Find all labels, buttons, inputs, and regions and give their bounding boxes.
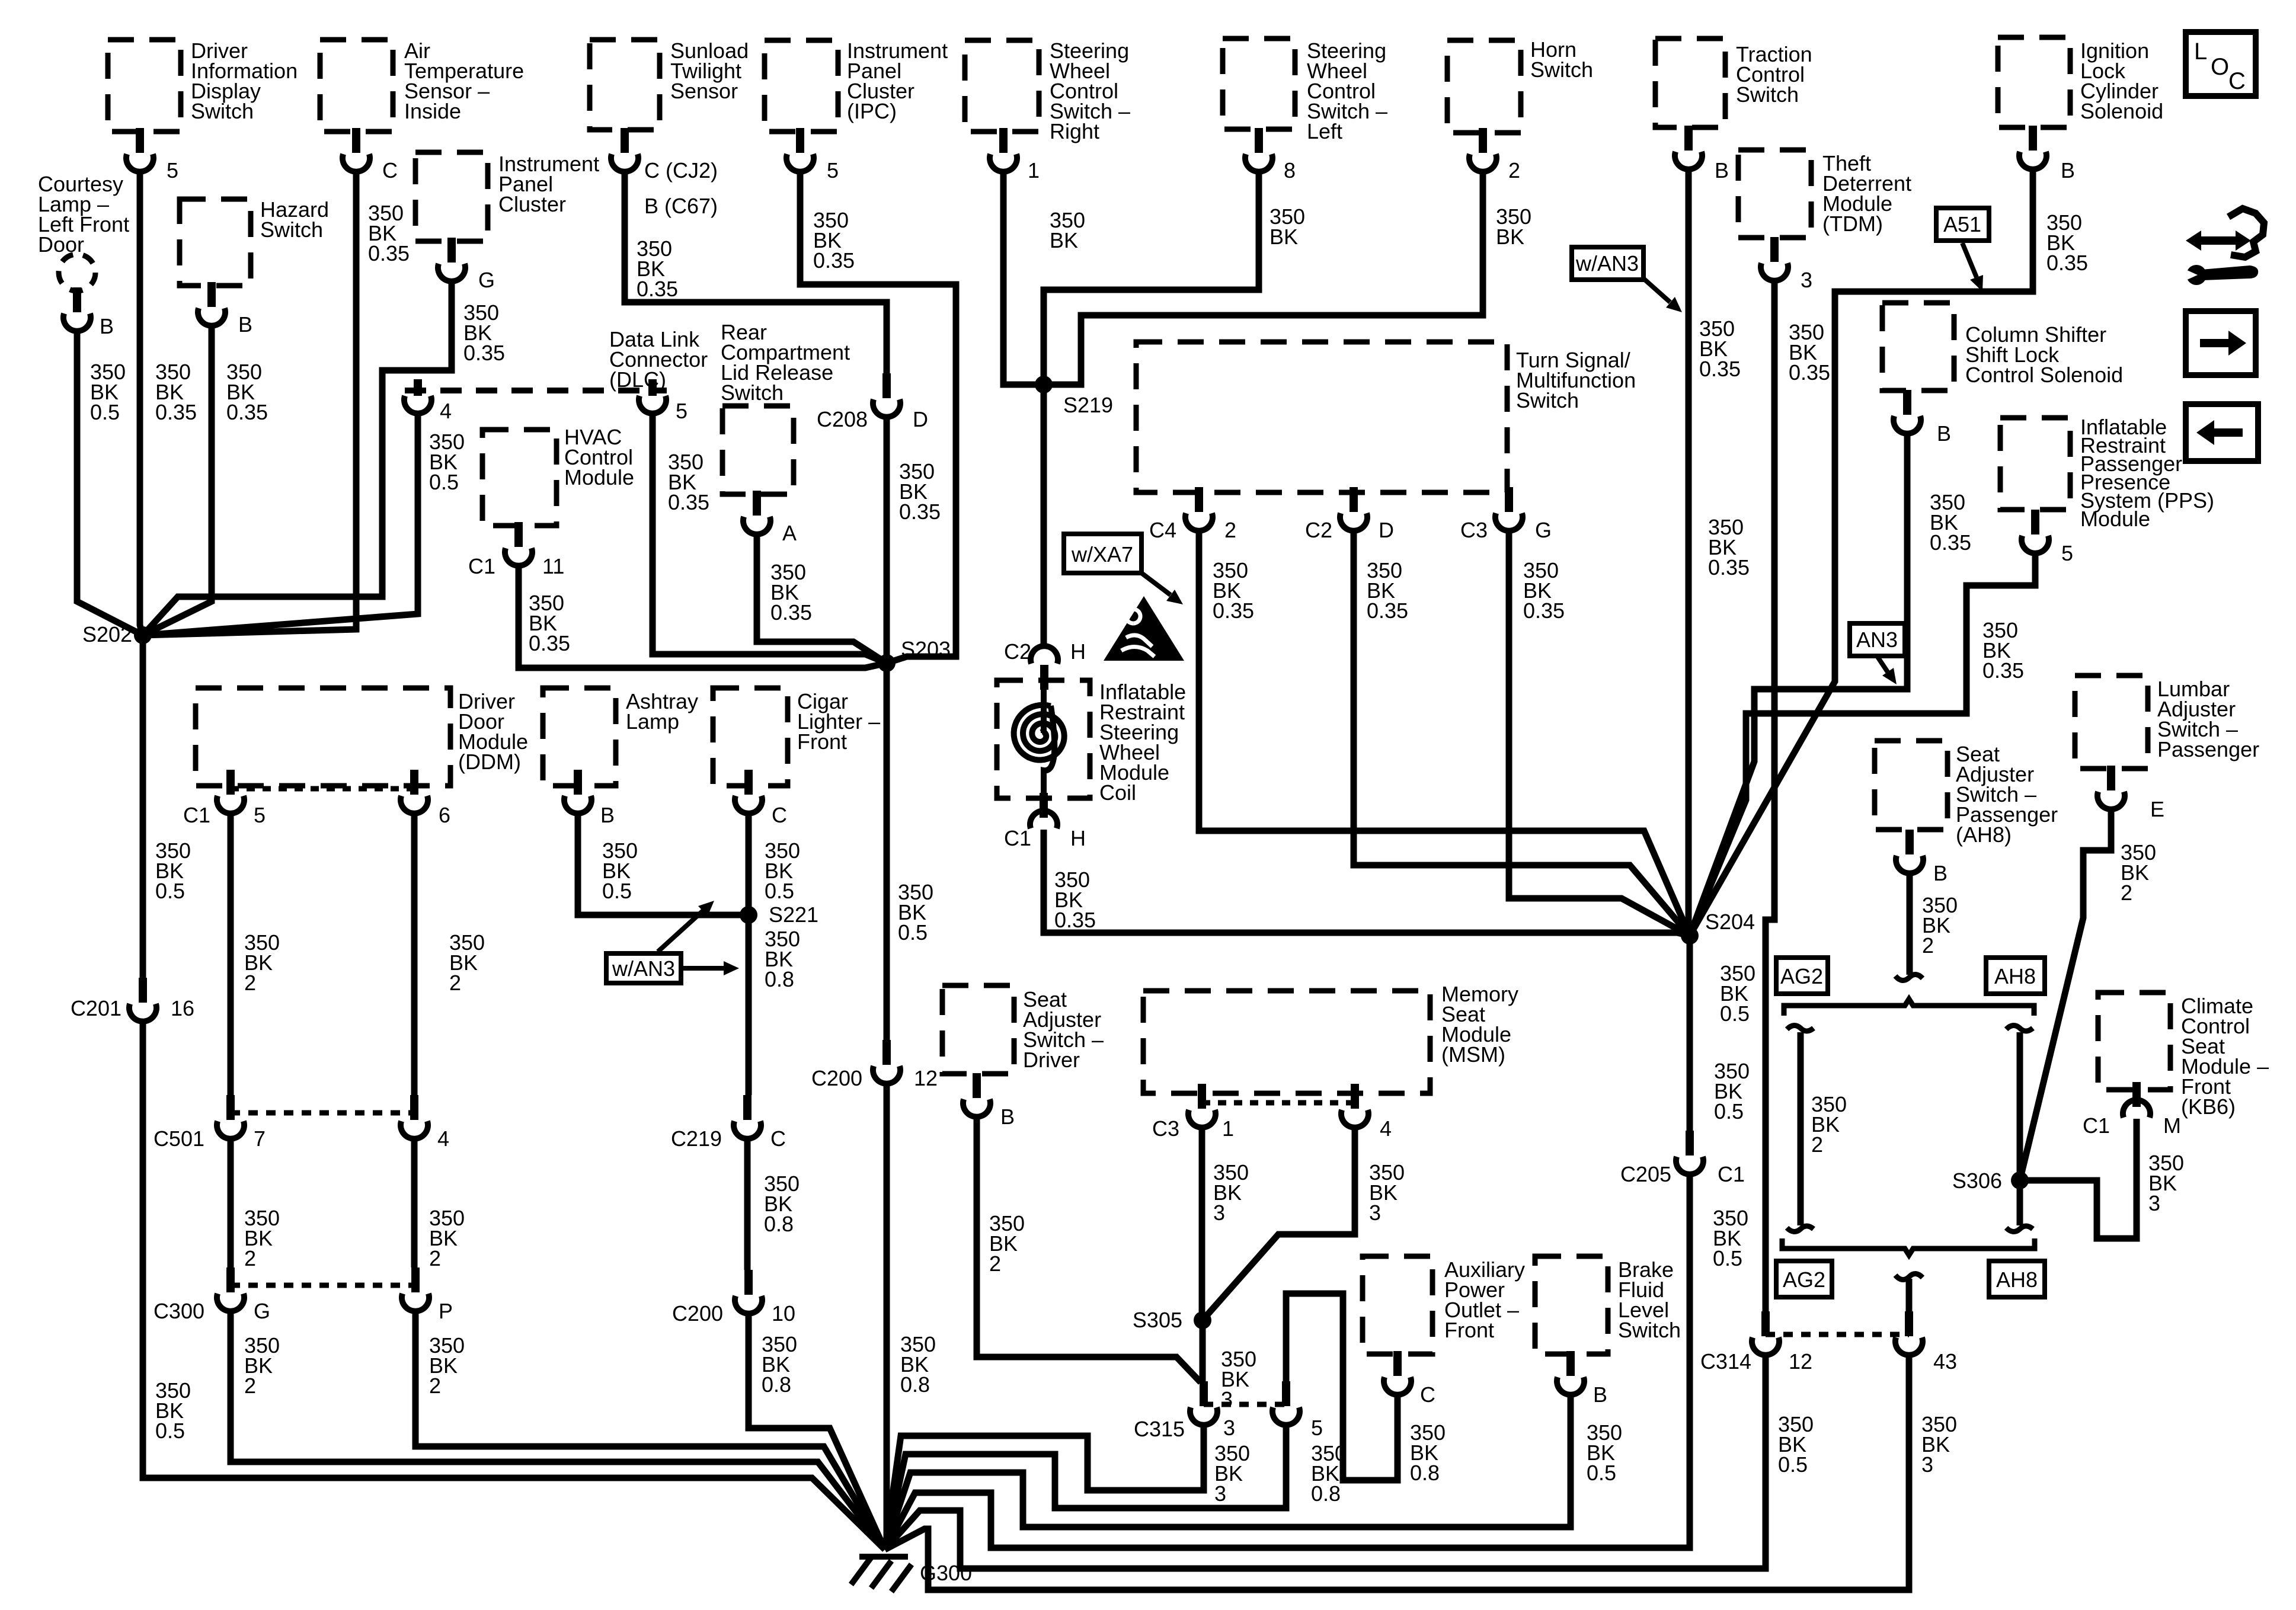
arrow w/AN3 up-right xyxy=(658,911,703,952)
wire C208 to S203 xyxy=(884,418,890,663)
svg-text:AN3: AN3 xyxy=(1856,628,1898,652)
wire C1/H to S204 xyxy=(1044,830,1690,936)
component HVAC Control Module xyxy=(482,430,557,526)
svg-text:0.35: 0.35 xyxy=(155,400,197,424)
right arrow glyph xyxy=(2200,339,2228,347)
svg-text:(KB6): (KB6) xyxy=(2181,1094,2236,1119)
svg-text:0.35: 0.35 xyxy=(529,631,570,655)
connector C219 pin C xyxy=(734,1095,761,1139)
svg-text:Module: Module xyxy=(2080,507,2150,531)
svg-text:0.8: 0.8 xyxy=(765,967,794,991)
connector C314 pin 12 xyxy=(1752,1311,1779,1355)
svg-text:0.35: 0.35 xyxy=(637,277,678,301)
svg-text:2: 2 xyxy=(1811,1132,1823,1157)
connector Cigar Lighter pin C xyxy=(735,770,762,814)
svg-text:2: 2 xyxy=(244,971,256,995)
connector DDM C1 pin 5 xyxy=(217,770,244,814)
svg-text:5: 5 xyxy=(676,399,687,423)
connector MSM C3 pin 1 xyxy=(1188,1084,1216,1128)
svg-text:L: L xyxy=(2194,39,2207,65)
svg-text:AH8: AH8 xyxy=(1994,964,2036,988)
connector Brake Fluid Switch pin B xyxy=(1557,1351,1584,1395)
svg-text:S202: S202 xyxy=(82,622,132,646)
svg-text:B: B xyxy=(1937,421,1951,446)
svg-text:43: 43 xyxy=(1933,1349,1957,1374)
component Cigar Lighter - Front xyxy=(713,688,788,786)
svg-text:C200: C200 xyxy=(672,1301,723,1326)
svg-text:G: G xyxy=(1535,518,1552,542)
connector C300 pin P xyxy=(402,1267,429,1311)
connector C1 pin H xyxy=(1030,793,1057,828)
svg-text:3: 3 xyxy=(1801,268,1812,292)
connector SWC Left pin 8 xyxy=(1245,128,1272,172)
connector C300 pin G xyxy=(217,1267,244,1311)
component Courtesy Lamp - Left Front Door xyxy=(59,254,95,291)
connector C200 pin 10 xyxy=(735,1270,762,1314)
wire MFS2 to S204 xyxy=(1199,532,1690,936)
svg-text:Module: Module xyxy=(564,465,634,489)
svg-text:0.35: 0.35 xyxy=(1982,658,2024,683)
svg-text:5: 5 xyxy=(167,158,178,183)
connector DLC pin 4 xyxy=(404,379,431,414)
svg-text:C1: C1 xyxy=(468,554,495,578)
svg-text:12: 12 xyxy=(1789,1349,1812,1374)
svg-text:Lamp: Lamp xyxy=(626,709,679,734)
wire PPS5 to S204 xyxy=(1690,554,2035,936)
hook AH8 wire bottom xyxy=(2006,1226,2033,1232)
svg-text:D: D xyxy=(913,407,928,431)
svg-text:Right: Right xyxy=(1050,119,1099,143)
svg-text:Switch: Switch xyxy=(191,99,254,123)
label box w/AN3 (lower) xyxy=(606,953,681,983)
svg-text:S203: S203 xyxy=(901,637,951,661)
svg-text:Switch: Switch xyxy=(721,380,784,405)
label box AN3 xyxy=(1850,623,1905,656)
connector IPC pin 5 xyxy=(786,128,814,172)
svg-text:C205: C205 xyxy=(1620,1162,1671,1186)
wire Cigar C through S221 to C219 xyxy=(746,814,752,1095)
connector Seat Adj Driver pin B xyxy=(963,1073,990,1117)
component Column Shifter Shift Lock Control Solenoid xyxy=(1882,303,1954,391)
svg-text:A51: A51 xyxy=(1943,212,1981,236)
svg-text:B: B xyxy=(238,312,252,337)
wire C219 to C200-10 xyxy=(744,1140,751,1270)
svg-text:Switch: Switch xyxy=(1618,1318,1681,1342)
wire MFSG to S204 xyxy=(1509,532,1690,936)
svg-text:O: O xyxy=(2211,54,2229,80)
hook at seat adj passenger wire end xyxy=(1895,974,1923,980)
svg-text:0.35: 0.35 xyxy=(1699,357,1741,381)
wire RCLRS A to S203 xyxy=(757,535,887,663)
svg-text:0.35: 0.35 xyxy=(770,600,812,625)
wire C314-12 to G300 xyxy=(885,1356,1766,1569)
svg-text:Door: Door xyxy=(38,232,84,257)
wire BrakeFluid B to G300 xyxy=(885,1395,1571,1550)
component Ashtray Lamp xyxy=(543,688,616,786)
hook AG2 wire top xyxy=(1787,1025,1814,1031)
svg-text:0.35: 0.35 xyxy=(2046,251,2088,275)
wire IPC G to S202 xyxy=(143,282,452,635)
svg-text:3: 3 xyxy=(1221,1387,1233,1411)
component Climate Control Seat Module - Front (KB6) xyxy=(2098,993,2170,1090)
svg-text:C: C xyxy=(382,158,398,183)
svg-text:11: 11 xyxy=(542,554,564,578)
svg-text:0.5: 0.5 xyxy=(155,1419,185,1443)
svg-text:0.35: 0.35 xyxy=(226,400,268,424)
svg-text:0.35: 0.35 xyxy=(463,341,505,365)
label box AH8 upper xyxy=(1986,958,2045,994)
svg-text:5: 5 xyxy=(254,803,266,827)
svg-text:w/XA7: w/XA7 xyxy=(1071,542,1133,566)
svg-text:12: 12 xyxy=(914,1066,938,1090)
arrow w/XA7 xyxy=(1141,573,1171,595)
dotted link C501 pins xyxy=(231,1110,414,1116)
svg-text:3: 3 xyxy=(1214,1481,1226,1506)
left arrow glyph xyxy=(2214,428,2243,437)
connector DDM pin 6 xyxy=(401,770,428,814)
svg-text:0.5: 0.5 xyxy=(898,920,928,945)
connector RCLRS pin A xyxy=(743,491,770,534)
svg-text:B (C67): B (C67) xyxy=(644,194,718,218)
connector PPS pin 5 xyxy=(2022,510,2049,553)
connector HVAC C1 pin 11 xyxy=(505,522,532,566)
arrow AN3 xyxy=(1877,656,1888,672)
wire Horn 2 to S219 xyxy=(1044,172,1483,385)
component Turn Signal Multifunction Switch xyxy=(1136,342,1507,492)
svg-text:B: B xyxy=(1933,861,1948,885)
connector IPC pin G xyxy=(438,238,465,281)
wire AirTemp C to S202 xyxy=(143,172,356,635)
wire S305 to C315-3 xyxy=(1200,1320,1206,1381)
connector C208 pin D xyxy=(873,373,900,417)
svg-text:C2: C2 xyxy=(1305,518,1332,542)
connector Driver Information Display Switch pin 5 xyxy=(126,128,154,172)
svg-text:0.35: 0.35 xyxy=(899,500,941,524)
wire MSM4 to S305 xyxy=(1203,1128,1355,1320)
svg-text:0.8: 0.8 xyxy=(762,1372,791,1397)
svg-text:0.8: 0.8 xyxy=(1311,1481,1341,1506)
svg-text:7: 7 xyxy=(254,1126,266,1151)
svg-text:5: 5 xyxy=(1311,1416,1323,1440)
label box AG2 lower xyxy=(1776,1261,1832,1297)
wire brace to C314-43 xyxy=(1906,1279,1913,1311)
svg-text:Switch: Switch xyxy=(1736,82,1799,107)
svg-text:2: 2 xyxy=(449,971,461,995)
svg-text:4: 4 xyxy=(440,399,452,423)
svg-text:C314: C314 xyxy=(1700,1349,1751,1374)
svg-text:BK: BK xyxy=(1496,225,1524,249)
svg-text:1: 1 xyxy=(1222,1116,1234,1141)
svg-text:10: 10 xyxy=(772,1301,795,1326)
svg-text:3: 3 xyxy=(1223,1416,1235,1440)
svg-text:BK: BK xyxy=(1050,228,1078,252)
svg-text:Front: Front xyxy=(797,729,847,754)
wire AG2 option xyxy=(1798,1032,1804,1225)
svg-text:C315: C315 xyxy=(1134,1417,1185,1441)
dotted link MSM pins xyxy=(1202,1100,1355,1106)
svg-text:0.35: 0.35 xyxy=(1708,555,1750,580)
wire C200-12 to G300 xyxy=(885,1084,887,1550)
svg-text:0.5: 0.5 xyxy=(602,879,632,903)
connector Air Temp Sensor pin C xyxy=(343,128,370,172)
wire AH8 option xyxy=(2017,1032,2023,1225)
splice S219 xyxy=(1035,376,1053,393)
arrow w/AN3 top xyxy=(1643,279,1670,302)
svg-text:4: 4 xyxy=(437,1126,449,1151)
svg-text:G: G xyxy=(478,268,495,292)
wire DLC4 to S202 xyxy=(143,414,418,635)
component Steering Wheel Control Switch - Right xyxy=(965,40,1039,132)
component Instrument Panel Cluster (IPC) xyxy=(765,40,838,132)
component Seat Adjuster Switch - Driver xyxy=(942,985,1014,1074)
splice S305 xyxy=(1194,1311,1211,1329)
label box AH8 lower xyxy=(1989,1261,2045,1297)
connector C314 pin 43 xyxy=(1895,1311,1923,1355)
svg-text:6: 6 xyxy=(439,803,450,827)
connector Hazard Switch pin B xyxy=(198,282,225,326)
brace upper (AG2/AH8 option split) xyxy=(1784,999,2034,1016)
brace lower (AG2/AH8 option merge) xyxy=(1782,1238,2035,1255)
connector C315 pin 5 xyxy=(1272,1381,1300,1425)
svg-text:Switch: Switch xyxy=(1530,57,1593,82)
svg-text:0.5: 0.5 xyxy=(1778,1452,1808,1477)
svg-text:0.5: 0.5 xyxy=(90,400,120,424)
connector Lumbar pin E xyxy=(2097,766,2125,809)
connector DLC pin 5 xyxy=(639,379,666,414)
icon box left arrow xyxy=(2186,404,2258,461)
svg-text:S204: S204 xyxy=(1705,910,1755,934)
svg-text:0.8: 0.8 xyxy=(1410,1461,1440,1485)
component Hazard Switch xyxy=(180,199,251,286)
wire HVAC 11 to S203 xyxy=(519,566,887,668)
label box A51 xyxy=(1936,208,1989,241)
component Brake Fluid Level Switch xyxy=(1535,1256,1608,1354)
wire DLC5 to S203 xyxy=(653,414,887,663)
svg-text:2: 2 xyxy=(429,1374,441,1398)
svg-text:C3: C3 xyxy=(1460,518,1488,542)
connector Traction Control pin B xyxy=(1675,126,1702,169)
svg-text:C1: C1 xyxy=(2083,1113,2110,1138)
wire S202 to C201 xyxy=(140,635,146,978)
wire MSM1 to S305 xyxy=(1199,1128,1205,1320)
arrow A51 xyxy=(1962,243,1977,277)
svg-text:S306: S306 xyxy=(1952,1169,2002,1193)
svg-text:S221: S221 xyxy=(769,902,818,927)
wire SeatAdjPass B to brace xyxy=(1907,874,1913,975)
svg-text:2: 2 xyxy=(429,1246,441,1270)
svg-text:0.5: 0.5 xyxy=(429,470,459,494)
svg-text:C1: C1 xyxy=(1718,1162,1745,1186)
connector C200 pin 12 xyxy=(873,1040,900,1084)
svg-text:0.5: 0.5 xyxy=(1720,1001,1750,1026)
svg-text:AH8: AH8 xyxy=(1996,1267,2038,1292)
component Inflatable Restraint Steering Wheel Module Coil xyxy=(997,680,1090,798)
svg-text:Solenoid: Solenoid xyxy=(2080,99,2163,123)
wire C300-P to G300 xyxy=(415,1312,885,1550)
svg-text:0.35: 0.35 xyxy=(1367,598,1408,623)
svg-text:G: G xyxy=(254,1299,270,1323)
svg-text:0.5: 0.5 xyxy=(765,879,794,903)
svg-text:Left: Left xyxy=(1307,119,1342,143)
connector C501 pin 7 xyxy=(217,1095,244,1139)
splice S306 xyxy=(2011,1172,2029,1189)
component Steering Wheel Control Switch - Left xyxy=(1223,39,1295,129)
ground G300 xyxy=(851,1557,912,1592)
svg-text:G300: G300 xyxy=(920,1561,972,1585)
wire Lumbar E to S306 xyxy=(2020,810,2111,1180)
svg-text:5: 5 xyxy=(827,158,839,183)
hook below lower brace xyxy=(1895,1273,1923,1279)
svg-text:w/AN3: w/AN3 xyxy=(1575,251,1639,276)
wire DDM6 to C501-4 xyxy=(411,814,418,1095)
svg-text:(AH8): (AH8) xyxy=(1956,822,2012,847)
svg-text:C: C xyxy=(770,1126,786,1151)
component Auxiliary Power Outlet - Front xyxy=(1363,1256,1432,1354)
connector C315 pin 3 xyxy=(1190,1381,1217,1425)
dotted link C315 pins xyxy=(1204,1402,1286,1407)
svg-text:2: 2 xyxy=(1922,933,1934,958)
wire C300-G to G300 xyxy=(231,1312,885,1550)
icon airbag warning triangle xyxy=(1104,596,1184,661)
connector Seat Adj Passenger pin B xyxy=(1896,830,1923,873)
wire Traction B to S204 xyxy=(1686,170,1692,936)
svg-text:C4: C4 xyxy=(1149,518,1176,542)
component Instrument Panel Cluster (small) xyxy=(415,152,488,241)
svg-text:P: P xyxy=(439,1299,453,1323)
svg-text:S219: S219 xyxy=(1063,393,1113,417)
connector Ashtray pin B xyxy=(564,770,591,814)
label box w/AN3 (top) xyxy=(1572,247,1643,280)
svg-text:C200: C200 xyxy=(811,1066,862,1090)
svg-text:B: B xyxy=(100,314,114,338)
svg-text:0.5: 0.5 xyxy=(1587,1461,1616,1485)
svg-text:2: 2 xyxy=(2121,881,2132,905)
svg-text:(DDM): (DDM) xyxy=(458,750,521,774)
svg-text:B: B xyxy=(2061,158,2075,183)
svg-text:(MSM): (MSM) xyxy=(1441,1042,1505,1067)
svg-text:C219: C219 xyxy=(671,1126,722,1151)
component Memory Seat Module (MSM) xyxy=(1143,991,1430,1093)
wire IPC5 to S203 xyxy=(800,172,956,663)
component Data Link Connector dashed bus xyxy=(405,388,667,393)
svg-text:3: 3 xyxy=(1213,1201,1225,1225)
dotted link DDM pins xyxy=(231,786,414,792)
svg-text:w/AN3: w/AN3 xyxy=(612,956,675,981)
svg-text:3: 3 xyxy=(1921,1452,1933,1477)
svg-text:AG2: AG2 xyxy=(1780,964,1823,988)
svg-text:(IPC): (IPC) xyxy=(847,99,897,123)
wire MFSD to S204 xyxy=(1354,532,1690,936)
connector MFS C4 pin 2 xyxy=(1185,487,1213,531)
connector Courtesy Lamp pin B xyxy=(63,287,91,331)
arrow w/AN3 right xyxy=(681,966,724,971)
splice S202 xyxy=(134,626,152,644)
connector Aux Power Outlet pin C xyxy=(1384,1351,1411,1395)
component Sunload Twilight Sensor xyxy=(590,40,660,130)
svg-text:2: 2 xyxy=(244,1374,256,1398)
wire C205 to G300 xyxy=(885,1175,1690,1550)
component Ignition Lock Cylinder Solenoid xyxy=(1998,37,2070,127)
dotted link C314 pins xyxy=(1766,1332,1909,1337)
wire C501-7 to C300-G xyxy=(228,1140,234,1267)
connector C205 pin C1 xyxy=(1676,1131,1703,1174)
svg-text:C300: C300 xyxy=(154,1299,204,1323)
svg-text:C: C xyxy=(772,803,787,827)
splice S204 xyxy=(1681,927,1699,945)
svg-text:0.35: 0.35 xyxy=(1523,598,1565,623)
svg-text:C501: C501 xyxy=(154,1126,204,1151)
component Inflatable Restraint PPS Module xyxy=(2000,418,2070,510)
connector KB6 C1 pin M xyxy=(2123,1082,2150,1118)
component Horn Switch xyxy=(1447,40,1521,133)
svg-text:C (CJ2): C (CJ2) xyxy=(644,158,718,183)
svg-text:Passenger: Passenger xyxy=(2157,737,2259,761)
svg-text:16: 16 xyxy=(171,996,194,1020)
wire S203 to C200-12 xyxy=(884,663,890,1040)
component Seat Adjuster Switch - Passenger (AH8) xyxy=(1875,741,1948,830)
icon hand with wrench xyxy=(2186,231,2251,251)
connector C201 pin 16 xyxy=(129,978,156,1022)
wire TDM3 to C314-12 xyxy=(1766,281,1774,1311)
svg-text:2: 2 xyxy=(989,1251,1001,1276)
hook AH8 wire top xyxy=(2006,1025,2033,1031)
svg-text:0.35: 0.35 xyxy=(1930,530,1971,555)
wire Ashtray B to S221 xyxy=(578,814,749,915)
svg-text:Cluster: Cluster xyxy=(498,192,566,216)
splice S203 xyxy=(878,654,896,672)
svg-text:0.8: 0.8 xyxy=(764,1212,794,1236)
svg-text:2: 2 xyxy=(1508,158,1520,183)
wire C315-3 to G300 xyxy=(885,1426,1204,1550)
wire DID pin5 to S202 xyxy=(140,172,143,635)
svg-text:S305: S305 xyxy=(1133,1308,1182,1332)
svg-text:Sensor: Sensor xyxy=(670,79,738,103)
svg-text:B: B xyxy=(1000,1105,1015,1129)
wire ColShift B to S204 xyxy=(1690,434,1907,936)
svg-text:0.5: 0.5 xyxy=(1713,1246,1742,1270)
svg-text:C: C xyxy=(1420,1382,1435,1407)
svg-text:H: H xyxy=(1070,826,1086,850)
svg-text:0.5: 0.5 xyxy=(155,879,185,903)
wire C315-5 up to Aux outlet xyxy=(1286,1294,1398,1480)
wire C201 to G300 xyxy=(143,1022,885,1550)
svg-text:0.35: 0.35 xyxy=(668,490,709,514)
connector SWC Right pin 1 xyxy=(990,128,1017,172)
svg-text:B: B xyxy=(1593,1382,1607,1407)
svg-text:B: B xyxy=(600,803,615,827)
wire S219 to C2/H xyxy=(1041,385,1047,647)
svg-text:0.8: 0.8 xyxy=(900,1372,930,1397)
svg-text:4: 4 xyxy=(1380,1116,1392,1141)
svg-text:Switch: Switch xyxy=(260,217,323,242)
connector MFS C2 pin D xyxy=(1340,487,1367,531)
component Lumbar Adjuster Switch - Passenger xyxy=(2075,676,2148,769)
svg-text:0.35: 0.35 xyxy=(1054,908,1096,932)
component Rear Compartment Lid Release Switch xyxy=(722,406,794,494)
svg-text:C2: C2 xyxy=(1004,639,1031,664)
label box w/XA7 xyxy=(1064,534,1141,573)
connector C501 pin 4 xyxy=(401,1095,428,1139)
svg-text:B: B xyxy=(1715,158,1729,183)
svg-text:3: 3 xyxy=(1369,1201,1381,1225)
svg-text:A: A xyxy=(782,521,797,545)
svg-text:3: 3 xyxy=(2148,1191,2160,1215)
svg-text:0.35: 0.35 xyxy=(1213,598,1254,623)
svg-text:8: 8 xyxy=(1284,158,1296,183)
wire Hazard B to S202 xyxy=(143,327,212,635)
coil spiral xyxy=(1041,690,1047,733)
wire C315-5 to G300 xyxy=(885,1426,1286,1550)
